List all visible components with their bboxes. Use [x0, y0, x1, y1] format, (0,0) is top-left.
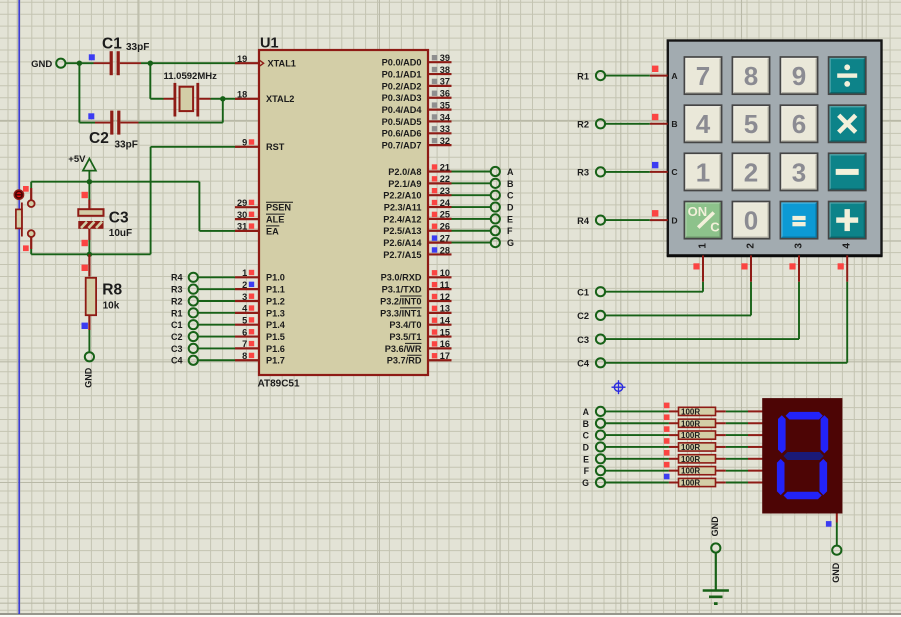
svg-text:R3: R3	[577, 168, 589, 178]
U1 pin 8 P1.7	[235, 351, 285, 366]
svg-text:P0.0/AD0: P0.0/AD0	[382, 58, 422, 68]
keypad button 8	[732, 57, 769, 94]
svg-text:4: 4	[696, 109, 711, 139]
wire col1 to C1	[605, 282, 703, 292]
wire resistor to display B	[726, 422, 763, 424]
marker segment F	[664, 462, 670, 468]
keypad button 2	[732, 153, 769, 190]
U1 pin 12 P3.2/INT0	[380, 292, 451, 307]
wire R4 to keypad	[605, 219, 650, 221]
U1 pin 3 P1.2	[235, 292, 285, 307]
keypad button divide	[829, 57, 866, 94]
keypad button multiply	[829, 105, 866, 142]
svg-text:1: 1	[697, 243, 708, 249]
terminal A (net A)	[491, 167, 514, 177]
svg-text:G: G	[582, 478, 589, 488]
terminal B (net B)	[491, 179, 514, 189]
keypad row pin B	[650, 119, 678, 129]
marker keypad row C	[652, 162, 658, 168]
svg-text:14: 14	[440, 316, 451, 326]
svg-text:E: E	[583, 454, 589, 464]
wire col3 to C3	[605, 282, 799, 339]
terminal R4	[577, 216, 605, 226]
marker keypad row B	[652, 114, 658, 120]
svg-text:33pF: 33pF	[126, 42, 149, 53]
svg-text:10uF: 10uF	[109, 228, 132, 239]
wire C1 to P1.4	[198, 324, 235, 326]
U1 pin 9 RST	[235, 138, 285, 153]
keypad button 1	[684, 153, 721, 190]
svg-text:R4: R4	[577, 216, 590, 226]
svg-text:10: 10	[440, 268, 450, 278]
U1 pin 38 P0.1/AD1	[382, 65, 452, 80]
svg-text:C1: C1	[577, 287, 589, 297]
svg-text:GND: GND	[31, 59, 52, 70]
svg-text:ON: ON	[688, 204, 708, 219]
svg-text:G: G	[507, 238, 514, 248]
U1 pin 17 P3.7/RD	[387, 351, 452, 366]
svg-text:B: B	[507, 179, 514, 189]
svg-text:22: 22	[440, 174, 450, 184]
wire 7seg to GND	[836, 523, 838, 546]
svg-text:39: 39	[440, 53, 450, 63]
node junction XTAL1/crystal	[148, 61, 153, 66]
svg-text:+5V: +5V	[68, 154, 86, 165]
terminal R3 (P1 side)	[171, 285, 198, 295]
svg-text:2: 2	[744, 157, 758, 187]
terminal R2	[577, 119, 605, 129]
svg-text:100R: 100R	[681, 467, 700, 476]
wire C2 up to XTAL2 node	[139, 99, 223, 123]
svg-text:C3: C3	[577, 335, 589, 345]
svg-text:P2.5/A13: P2.5/A13	[383, 226, 421, 236]
terminal R4 (P1 side)	[171, 273, 198, 283]
terminal C2 (P1 side)	[171, 332, 198, 342]
svg-text:P2.0/A8: P2.0/A8	[388, 167, 421, 177]
capacitor C1 33pF	[94, 35, 150, 75]
wire R8 to GND	[88, 330, 90, 352]
keypad button 7	[684, 57, 721, 94]
svg-text:32: 32	[440, 136, 450, 146]
svg-text:16: 16	[440, 339, 450, 349]
svg-text:C3: C3	[171, 344, 183, 354]
U1 pin 36 P0.3/AD3	[382, 89, 452, 104]
svg-text:R2: R2	[171, 296, 183, 306]
7seg segment C	[820, 459, 828, 495]
terminal C3 (P1 side)	[171, 344, 198, 354]
keypad button 6	[780, 105, 817, 142]
keypad button 3	[780, 153, 817, 190]
svg-text:6: 6	[242, 327, 247, 337]
U1 pin 1 P1.0	[235, 268, 285, 283]
terminal R1	[577, 71, 605, 81]
wire P2.2 to C	[452, 194, 492, 196]
svg-text:R8: R8	[102, 281, 122, 298]
keypad row pin A	[650, 71, 678, 81]
terminal C2	[577, 311, 605, 321]
U1 pin 18 XTAL2	[235, 90, 294, 105]
keypad button 9	[780, 57, 817, 94]
U1 pin 19 XTAL1	[235, 54, 296, 69]
svg-text:9: 9	[792, 61, 806, 91]
wire C2 to P1.5	[198, 336, 235, 338]
wire P2.4 to E	[452, 218, 492, 220]
wire resistor to display F	[726, 470, 763, 472]
U1 pin 27 P2.6/A14	[383, 233, 451, 248]
wire E to resistor	[605, 458, 669, 460]
svg-text:U1: U1	[260, 35, 279, 51]
U1 pin 34 P0.5/AD5	[382, 112, 452, 127]
U1 pin 30 ALE	[235, 210, 285, 225]
7seg common pin	[836, 514, 838, 523]
resistor 100R (G)	[669, 478, 726, 487]
wire R4 to P1.0	[198, 276, 235, 278]
sheet bottom edge	[0, 613, 901, 617]
svg-text:C3: C3	[109, 210, 129, 227]
wire A to resistor	[605, 410, 669, 412]
svg-text:P2.3/A11: P2.3/A11	[384, 202, 422, 212]
wire C1 to XTAL1 node	[141, 62, 240, 64]
svg-text:C2: C2	[89, 130, 109, 147]
wire R2 to keypad	[605, 123, 650, 125]
U1 pin 4 P1.3	[235, 304, 285, 319]
blue marker C1 pin	[89, 54, 95, 60]
U1 pin 14 P3.4/T0	[389, 316, 451, 331]
svg-text:24: 24	[440, 198, 451, 208]
svg-text:XTAL1: XTAL1	[268, 59, 296, 69]
U1 pin 32 P0.7/AD7	[382, 136, 452, 151]
svg-text:B: B	[671, 119, 677, 129]
U1 pin 24 P2.3/A11	[384, 198, 452, 213]
svg-text:AT89C51: AT89C51	[258, 379, 300, 390]
svg-text:P0.6/AD6: P0.6/AD6	[382, 129, 422, 139]
wire P2.5 to F	[452, 230, 492, 232]
wire node down to crystal	[150, 63, 163, 99]
wire C4 to P1.7	[198, 359, 235, 361]
U1 pin 33 P0.6/AD6	[382, 124, 452, 139]
terminal C (net C)	[491, 191, 514, 201]
svg-text:5: 5	[744, 109, 758, 139]
svg-text:33: 33	[440, 124, 450, 134]
7seg segment G (off)	[783, 452, 823, 460]
svg-text:33pF: 33pF	[115, 140, 138, 151]
wire resistor to display E	[726, 458, 763, 460]
7seg segment F	[778, 415, 786, 453]
U1 pin 5 P1.4	[235, 316, 286, 331]
svg-text:P0.2/AD2: P0.2/AD2	[382, 81, 422, 91]
svg-text:ALE: ALE	[266, 215, 284, 225]
wire D to resistor	[605, 446, 669, 448]
wire R3 to P1.1	[198, 288, 235, 290]
svg-text:18: 18	[237, 90, 247, 100]
terminal R1 (P1 side)	[171, 308, 198, 318]
svg-text:35: 35	[440, 100, 450, 110]
U1 pin 28 P2.7/A15	[383, 245, 451, 260]
7seg segment D	[784, 492, 822, 500]
svg-text:GND: GND	[710, 516, 720, 537]
svg-text:P1.3: P1.3	[266, 308, 285, 318]
wire G to resistor	[605, 482, 669, 484]
resistor 100R (A)	[669, 407, 726, 416]
terminal R3	[577, 167, 605, 177]
resistor 100R (D)	[669, 443, 726, 452]
svg-text:8: 8	[744, 61, 758, 91]
svg-text:4: 4	[242, 304, 248, 314]
blue marker R8 bottom	[82, 323, 88, 329]
wire RST	[151, 147, 240, 255]
U1 pin 11 P3.1/TXD	[382, 280, 452, 295]
svg-text:A: A	[583, 407, 590, 417]
terminal D (segment side)	[583, 442, 605, 452]
power +5V	[68, 154, 96, 182]
svg-text:100R: 100R	[681, 407, 700, 416]
svg-text:P3.6/WR: P3.6/WR	[385, 344, 422, 354]
svg-text:A: A	[671, 71, 677, 81]
wire node to C1	[79, 62, 93, 64]
svg-text:34: 34	[440, 112, 451, 122]
IC U1 body	[259, 50, 428, 375]
wire P2.6 to G	[452, 242, 492, 244]
svg-text:17: 17	[440, 351, 450, 361]
wire button bottom	[30, 249, 32, 254]
U1 pin 37 P0.2/AD2	[382, 77, 452, 92]
svg-text:8: 8	[242, 351, 247, 361]
marker keypad col 1	[693, 263, 699, 269]
marker keypad col 2	[741, 263, 747, 269]
svg-text:C: C	[671, 167, 677, 177]
terminal C1	[577, 287, 605, 297]
svg-text:1: 1	[242, 268, 247, 278]
marker segment B	[664, 414, 670, 420]
svg-text:B: B	[583, 419, 589, 429]
svg-text:7: 7	[242, 339, 247, 349]
keypad row pin D	[650, 215, 678, 225]
svg-text:P0.5/AD5: P0.5/AD5	[382, 117, 422, 127]
svg-text:P3.5/T1: P3.5/T1	[389, 332, 421, 342]
wire GND to node	[65, 62, 79, 64]
svg-text:P1.6: P1.6	[266, 344, 285, 354]
svg-text:C1: C1	[171, 320, 183, 330]
keypad button minus	[829, 153, 866, 190]
wire resistor to display A	[726, 410, 763, 412]
svg-text:C1: C1	[102, 35, 122, 52]
svg-text:1: 1	[696, 157, 710, 187]
wire +5V rail	[31, 181, 199, 183]
svg-text:R1: R1	[577, 71, 589, 81]
terminal E (segment side)	[583, 454, 605, 464]
svg-text:P2.4/A12: P2.4/A12	[383, 214, 421, 224]
svg-text:100R: 100R	[681, 479, 700, 488]
terminal GND (below R8)	[84, 352, 95, 388]
U1 pin 6 P1.5	[235, 327, 285, 342]
svg-text:P3.0/RXD: P3.0/RXD	[381, 273, 422, 283]
svg-text:A: A	[507, 167, 514, 177]
red marker C3 top	[82, 192, 88, 198]
svg-text:P0.4/AD4: P0.4/AD4	[382, 105, 423, 115]
svg-text:12: 12	[440, 292, 450, 302]
svg-text:D: D	[507, 202, 514, 212]
resistor 100R (B)	[669, 419, 726, 428]
svg-text:36: 36	[440, 89, 450, 99]
svg-text:P2.7/A15: P2.7/A15	[383, 250, 421, 260]
svg-text:30: 30	[237, 210, 247, 220]
svg-text:4: 4	[842, 243, 853, 249]
terminal F (segment side)	[584, 466, 605, 476]
wire resistor to display D	[726, 446, 763, 448]
keypad button =	[780, 202, 817, 239]
svg-text:21: 21	[440, 162, 450, 172]
svg-text:P2.1/A9: P2.1/A9	[388, 179, 421, 189]
origin marker	[612, 380, 626, 394]
svg-text:RST: RST	[266, 142, 285, 152]
keypad column pin 2	[745, 243, 756, 282]
svg-text:P0.1/AD1: P0.1/AD1	[382, 69, 422, 79]
marker keypad col 4	[838, 263, 844, 269]
wire rail to button	[30, 182, 32, 188]
wire resistor to display C	[726, 434, 763, 436]
keypad button ON/C	[684, 202, 721, 239]
terminal C1 (P1 side)	[171, 320, 198, 330]
terminal GND (7seg)	[831, 546, 842, 583]
keypad row pin C	[650, 167, 678, 177]
wire C to resistor	[605, 434, 669, 436]
svg-text:3: 3	[792, 157, 806, 187]
button (reset)	[14, 188, 34, 249]
svg-text:10k: 10k	[103, 300, 120, 311]
svg-text:2: 2	[242, 280, 247, 290]
resistor 100R (C)	[669, 431, 726, 440]
wire col4 to C4	[605, 282, 847, 363]
wire bottom row	[31, 253, 150, 255]
svg-text:C: C	[710, 219, 720, 234]
svg-text:E: E	[507, 214, 513, 224]
svg-text:D: D	[671, 215, 677, 225]
U1 pin 31 EA	[235, 222, 279, 237]
U1 pin 21 P2.0/A8	[388, 162, 451, 177]
keypad button 5	[732, 105, 769, 142]
svg-text:9: 9	[242, 138, 247, 148]
red marker button top	[23, 186, 29, 192]
svg-text:R1: R1	[171, 308, 183, 318]
svg-text:100R: 100R	[681, 455, 700, 464]
7seg segment A	[786, 412, 823, 420]
svg-text:P3.7/RD: P3.7/RD	[387, 356, 422, 366]
U1 pin 16 P3.6/WR	[385, 339, 452, 354]
U1 pin 7 P1.6	[235, 339, 285, 354]
wire resistor to display G	[726, 482, 763, 484]
svg-text:C: C	[507, 191, 514, 201]
svg-text:P3.4/T0: P3.4/T0	[389, 320, 421, 330]
terminal C3	[577, 335, 605, 345]
svg-text:P1.7: P1.7	[266, 356, 285, 366]
svg-text:29: 29	[237, 198, 247, 208]
keypad column pin 3	[793, 243, 804, 282]
marker keypad row D	[652, 210, 658, 216]
U1 pin 2 P1.1	[235, 280, 285, 295]
blue marker 7seg common	[826, 521, 832, 527]
terminal C (segment side)	[583, 431, 605, 441]
terminal G (net G)	[491, 238, 514, 248]
U1 pin 15 P3.5/T1	[389, 327, 451, 342]
svg-text:P1.0: P1.0	[266, 273, 285, 283]
svg-text:P1.5: P1.5	[266, 332, 285, 342]
7seg segment B	[821, 415, 829, 453]
svg-text:100R: 100R	[681, 419, 700, 428]
svg-text:R3: R3	[171, 285, 183, 295]
svg-text:38: 38	[440, 65, 450, 75]
svg-text:P2.2/A10: P2.2/A10	[383, 191, 421, 201]
red marker button bottom	[23, 245, 29, 251]
svg-text:6: 6	[792, 109, 806, 139]
svg-text:R4: R4	[171, 273, 183, 283]
svg-text:23: 23	[440, 186, 450, 196]
keypad button 0	[732, 202, 769, 239]
wire R1 to P1.3	[198, 312, 235, 314]
wire col2 to C2	[605, 282, 751, 316]
svg-text:C2: C2	[171, 332, 183, 342]
terminal E (net E)	[491, 214, 513, 224]
label AT89C51	[258, 379, 300, 390]
U1 pin 26 P2.5/A13	[383, 222, 451, 237]
terminal R2 (P1 side)	[171, 296, 198, 306]
junction rail/C3	[87, 179, 92, 184]
U1 pin 25 P2.4/A12	[383, 210, 451, 225]
node wire C1-C2 vertical	[79, 63, 95, 122]
keypad body	[667, 41, 883, 257]
svg-text:P0.3/AD3: P0.3/AD3	[382, 93, 422, 103]
terminal B (segment side)	[583, 419, 605, 429]
marker segment A	[664, 403, 670, 409]
resistor R8 10k	[86, 254, 123, 330]
wire P2.1 to B	[452, 182, 492, 184]
keypad column pin 1	[697, 243, 708, 282]
junction bottom/C3	[87, 252, 92, 257]
svg-text:15: 15	[440, 327, 450, 337]
U1 pin 22 P2.1/A9	[388, 174, 451, 189]
U1 pin 39 P0.0/AD0	[382, 53, 452, 68]
resistor 100R (F)	[669, 467, 726, 476]
terminal F (net F)	[491, 226, 513, 236]
terminal C4	[577, 358, 605, 368]
ground symbol	[703, 516, 729, 605]
capacitor C3 10uF	[78, 182, 132, 255]
svg-text:C4: C4	[171, 356, 183, 366]
U1 pin 10 P3.0/RXD	[381, 268, 452, 283]
label U1	[260, 35, 279, 51]
U1 pin 13 P3.3/INT1	[380, 304, 451, 319]
wire crystal to XTAL2	[211, 98, 241, 100]
marker keypad row A	[652, 66, 658, 72]
svg-text:GND: GND	[831, 562, 841, 583]
U1 pin 23 P2.2/A10	[383, 186, 451, 201]
svg-text:2: 2	[745, 243, 756, 249]
terminal C4 (P1 side)	[171, 356, 198, 366]
svg-text:37: 37	[440, 77, 450, 87]
svg-text:EA: EA	[266, 226, 279, 236]
blue marker C2 pin	[88, 113, 94, 119]
U1 pin 35 P0.4/AD4	[382, 100, 452, 115]
terminal G (segment side)	[582, 478, 605, 488]
wire R2 to P1.2	[198, 300, 235, 302]
marker keypad col 3	[789, 263, 795, 269]
svg-text:0: 0	[744, 206, 758, 236]
svg-text:C: C	[583, 431, 590, 441]
capacitor C2 33pF	[89, 111, 139, 151]
svg-text:XTAL2: XTAL2	[266, 94, 294, 104]
svg-text:D: D	[583, 442, 589, 452]
svg-text:13: 13	[440, 304, 450, 314]
svg-text:5: 5	[242, 316, 247, 326]
